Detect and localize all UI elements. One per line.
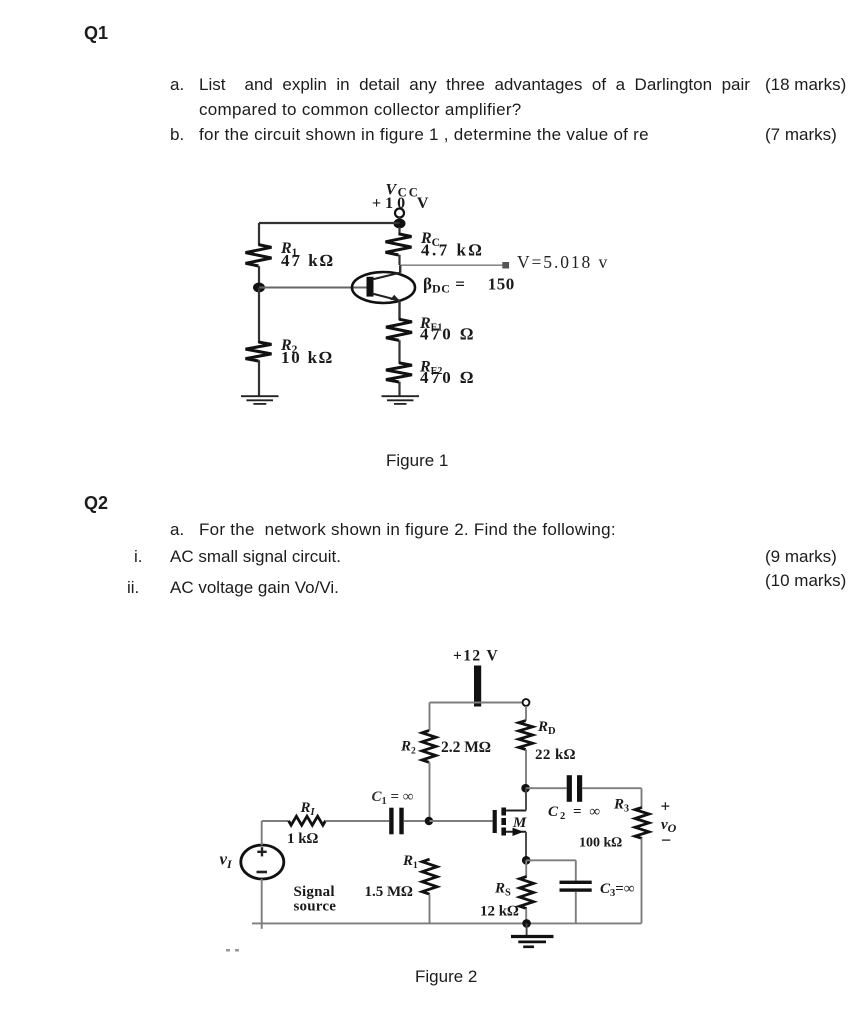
svg-text:V=5.018 v: V=5.018 v	[517, 252, 609, 272]
transistor M mosfet	[493, 788, 526, 860]
resistor RD	[519, 706, 533, 788]
label 2.2 Mohm	[441, 739, 491, 756]
wire vi bottom	[261, 879, 263, 929]
resistor R1 c2	[422, 859, 437, 923]
ground c2	[511, 923, 554, 946]
node gate dot	[425, 817, 433, 825]
svg-text:C2 = ∞: C2 = ∞	[548, 804, 602, 822]
heading Q1	[84, 24, 108, 44]
marks 7	[765, 126, 837, 145]
label Signal source	[294, 884, 337, 915]
capacitor C2	[567, 775, 583, 802]
item ii marker	[127, 579, 139, 598]
resistor RE2	[386, 363, 412, 396]
marks 18	[765, 76, 846, 95]
svg-text:C3=∞: C3=∞	[600, 881, 635, 899]
label RE1	[419, 315, 442, 334]
svg-text:10 kΩ: 10 kΩ	[281, 348, 334, 367]
svg-text:47 kΩ: 47 kΩ	[281, 251, 335, 270]
resistor RC	[386, 227, 412, 265]
label RC	[420, 230, 440, 249]
wire collector	[399, 265, 401, 273]
label R2 c2	[400, 739, 416, 757]
svg-text:1.5 MΩ: 1.5 MΩ	[365, 884, 414, 900]
label +10 V	[372, 195, 432, 212]
marks 10	[765, 572, 846, 591]
caption Figure 1	[386, 452, 448, 471]
label 1 kohm	[287, 831, 319, 847]
svg-text:470 Ω: 470 Ω	[420, 325, 476, 344]
wire gate	[430, 820, 493, 822]
svg-text:470 Ω: 470 Ω	[420, 368, 476, 387]
svg-text:C1 = ∞: C1 = ∞	[372, 789, 414, 807]
svg-text:RI: RI	[300, 800, 316, 818]
svg-text:12 kΩ: 12 kΩ	[480, 904, 519, 920]
marks 9	[765, 548, 837, 567]
wire C1 to gate node	[404, 820, 430, 822]
label R1 c2	[402, 853, 418, 871]
svg-text:100 kΩ: 100 kΩ	[579, 836, 622, 851]
label V=5.018 v	[517, 252, 609, 272]
label vo	[661, 817, 677, 835]
label M	[512, 815, 527, 831]
svg-text:M: M	[512, 815, 527, 831]
label 100 kohm	[579, 836, 622, 851]
label 470 ohm RE2	[420, 368, 476, 387]
source vi	[241, 845, 284, 879]
svg-text:R2: R2	[400, 739, 416, 757]
wire terminal to node	[398, 217, 400, 224]
wire emitter	[398, 301, 400, 320]
svg-text:RD: RD	[537, 719, 556, 737]
svg-text:+12 V: +12 V	[453, 648, 499, 665]
label R3	[613, 797, 629, 815]
ground left	[241, 396, 279, 404]
label +12 V	[453, 648, 499, 665]
wire source to C3	[526, 860, 576, 881]
label C3 = inf	[600, 881, 635, 899]
transistor Q1	[352, 272, 415, 303]
wire top horizontal c2	[430, 702, 523, 704]
svg-text:source: source	[294, 899, 337, 915]
item i text	[170, 548, 341, 567]
label 22 kohm	[535, 747, 576, 763]
label beta DC	[423, 275, 515, 296]
resistor RS	[520, 860, 534, 923]
heading Q2	[84, 494, 108, 514]
item b text	[199, 126, 649, 145]
resistor RE1	[386, 319, 412, 363]
label 47 kohm	[281, 251, 335, 270]
capacitor C1	[389, 808, 403, 835]
node rail ground dot	[522, 919, 531, 928]
label RD	[537, 719, 556, 737]
resistor R2 c2	[422, 703, 436, 822]
caption Figure 2	[415, 968, 477, 987]
item ii text	[170, 579, 339, 598]
resistor R3	[635, 788, 649, 923]
label minus output	[661, 830, 671, 850]
item a line 2	[199, 101, 522, 120]
svg-text:RS: RS	[494, 881, 511, 899]
label 10 kohm	[281, 348, 334, 367]
node drain dot	[521, 784, 530, 793]
item i marker	[134, 548, 143, 567]
label Vcc	[386, 182, 420, 200]
svg-text:R1: R1	[402, 853, 418, 871]
label vi	[220, 850, 234, 872]
power supply bar +12V	[474, 666, 481, 707]
wire collector probe	[400, 264, 503, 266]
capacitor C3	[560, 881, 592, 892]
label R1	[280, 240, 298, 259]
label RE2	[419, 359, 442, 378]
wire bottom rail	[252, 922, 642, 924]
supply terminal circle c2	[523, 699, 530, 706]
label R2	[280, 337, 298, 356]
label 1.5 Mohm	[365, 884, 414, 900]
ground right	[382, 396, 420, 404]
wire top horizontal	[259, 222, 400, 224]
resistor RI	[289, 816, 326, 825]
label RS	[494, 881, 511, 899]
node source dot	[522, 856, 531, 865]
label plus output	[661, 797, 671, 816]
svg-text:22 kΩ: 22 kΩ	[535, 747, 576, 763]
svg-text:R3: R3	[613, 797, 629, 815]
item b marker	[170, 126, 184, 145]
label C1 = inf	[372, 789, 414, 807]
resistor R1	[246, 223, 272, 288]
label C2 = inf	[548, 804, 602, 822]
node base junction dot	[253, 283, 265, 293]
svg-text:4.7 kΩ: 4.7 kΩ	[421, 241, 484, 260]
item a marker Q2	[170, 521, 184, 540]
wire C3 to rail	[575, 892, 577, 924]
item a line 1	[199, 76, 749, 95]
junction dot Vcc node	[394, 219, 406, 229]
svg-text:+: +	[661, 797, 671, 816]
Vcc supply terminal	[395, 209, 404, 218]
svg-text:βDC = 150: βDC = 150	[423, 275, 515, 296]
label 4.7 kohm	[421, 241, 484, 260]
item a text Q2	[199, 521, 616, 540]
wire C2 to R3	[582, 787, 641, 789]
svg-text:1 kΩ: 1 kΩ	[287, 831, 319, 847]
svg-text:−: −	[661, 830, 671, 850]
wire drain to C2	[526, 787, 567, 789]
stray dots artifact	[226, 949, 239, 952]
probe square marker	[502, 262, 509, 269]
item a marker	[170, 76, 184, 95]
label 470 ohm RE1	[420, 325, 476, 344]
label 12 kohm	[480, 904, 519, 920]
wire vi top	[262, 821, 289, 845]
label RI	[300, 800, 316, 818]
wire base	[259, 287, 368, 289]
resistor R2	[246, 288, 272, 396]
svg-text:2.2 MΩ: 2.2 MΩ	[441, 739, 491, 756]
svg-text:vI: vI	[220, 850, 234, 872]
wire RI to C1	[326, 820, 390, 822]
